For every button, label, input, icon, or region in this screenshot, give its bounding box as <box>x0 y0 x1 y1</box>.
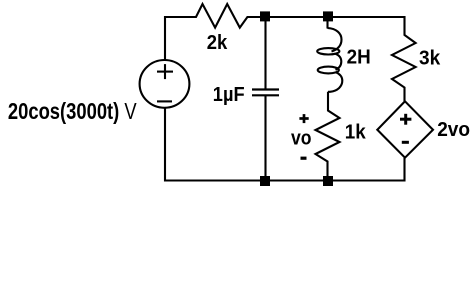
node bottom A <box>260 176 270 186</box>
wire bottom rail from diamond to source <box>165 108 405 181</box>
node top A <box>260 11 270 21</box>
svg-text:20cos(3000t) V: 20cos(3000t) V <box>8 99 137 124</box>
node top B <box>323 11 333 21</box>
svg-text:1k: 1k <box>345 121 366 144</box>
inductor L1 2H top stub <box>326 21 328 29</box>
node bottom B <box>323 176 333 186</box>
dependent source minus sign <box>402 141 409 144</box>
voltage source plus sign <box>157 71 173 73</box>
vo minus sign <box>301 157 307 160</box>
inductor L1 bottom lead, resistor R 1k, lead to node <box>316 92 340 176</box>
svg-text:vo: vo <box>291 127 312 150</box>
capacitor C1 top lead <box>264 21 266 90</box>
svg-text:1µF: 1µF <box>213 83 245 106</box>
inductor L1 arc 2 <box>336 54 342 70</box>
dependent source plus sign <box>400 118 411 121</box>
voltage source V1 circle <box>140 60 190 108</box>
wire top rail with resistor 2k and resistor 3k branch <box>165 4 416 101</box>
svg-text:2H: 2H <box>347 46 371 69</box>
vo plus sign <box>299 117 308 120</box>
capacitor C1 bottom lead <box>264 95 266 176</box>
voltage source minus sign <box>157 100 172 102</box>
capacitor C1 plates <box>252 88 279 90</box>
svg-text:2vo: 2vo <box>437 118 470 141</box>
inductor L1 loop 1 <box>317 48 339 54</box>
inductor L1 loop 2 <box>318 67 339 74</box>
dependent source E1 diamond <box>377 101 433 157</box>
inductor L1 arc 3 <box>328 72 342 92</box>
svg-text:3k: 3k <box>419 47 441 70</box>
svg-text:2k: 2k <box>207 31 228 54</box>
inductor L1 arc 1 <box>328 28 342 52</box>
